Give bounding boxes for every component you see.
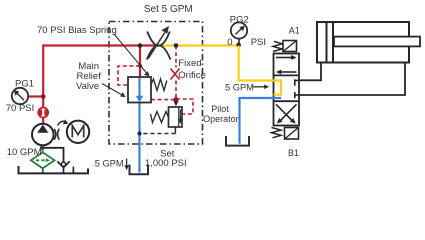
svg-text:Pilot: Pilot bbox=[211, 104, 229, 114]
svg-text:PSI: PSI bbox=[251, 37, 266, 48]
top actuator: spring and solenoid A1 bbox=[273, 41, 282, 51]
directional valve envelope (3 position) bbox=[274, 54, 300, 126]
svg-text:70 PSI Bias Spring: 70 PSI Bias Spring bbox=[37, 25, 117, 36]
wire: yellow regulated flow line to PG2 tee bbox=[158, 44, 239, 46]
piston bbox=[326, 22, 328, 63]
drain: stub and black dashed line to tank line bbox=[174, 127, 176, 134]
gauge PG1 bbox=[12, 88, 28, 104]
rotation arrow bbox=[58, 121, 67, 125]
svg-text:Set 5 GPM: Set 5 GPM bbox=[144, 4, 193, 15]
rod bbox=[334, 37, 420, 47]
position 3 crossed arrows bbox=[276, 104, 293, 121]
wire: yellow drop to directional valve bbox=[239, 46, 281, 95]
svg-text:Operator: Operator bbox=[203, 114, 239, 124]
fixed orifice X symbol bbox=[171, 69, 180, 80]
cylinder body bbox=[317, 22, 409, 63]
70 PSI bias spring of compensator bbox=[151, 79, 167, 91]
position 1 arrows bbox=[276, 57, 292, 59]
svg-text:5 GPM: 5 GPM bbox=[95, 159, 124, 169]
variable orifice (set 5 GPM needle valve) bbox=[147, 32, 170, 46]
svg-text:10 GPM: 10 GPM bbox=[7, 147, 42, 158]
center position blocked ports bbox=[295, 79, 299, 85]
wire: blue flow arrow inside compensator bbox=[138, 78, 140, 97]
svg-text:5 GPM: 5 GPM bbox=[225, 82, 254, 92]
svg-text:Fixed: Fixed bbox=[178, 58, 201, 69]
node: load-sense tee on riser bbox=[138, 64, 142, 68]
bottom actuator: spring and solenoid B1 bbox=[272, 128, 282, 138]
filter diamond bbox=[31, 152, 55, 168]
tank: pilot-operator return reservoir bbox=[226, 136, 249, 146]
wire: red left rail vertical pump to main line bbox=[42, 45, 44, 124]
electric motor M bbox=[67, 121, 89, 143]
flow indicator on pump outlet bbox=[38, 108, 48, 118]
svg-text:Valve: Valve bbox=[76, 81, 99, 92]
pilot relief spring bbox=[151, 112, 169, 123]
wire: red pump pressure line horizontal bbox=[43, 44, 158, 46]
pilot line: red dashed to pilot relief right side bbox=[176, 99, 193, 114]
wire: blue tank return from directional valve bbox=[240, 98, 282, 144]
suction line green to filter bbox=[42, 146, 44, 153]
pilot relief valve body (set 1,000 PSI) bbox=[169, 107, 183, 127]
svg-text:A1: A1 bbox=[289, 26, 300, 36]
check valve ball and seat bbox=[61, 162, 65, 166]
node: PG2 tee bbox=[236, 43, 241, 48]
svg-text:70 PSI: 70 PSI bbox=[6, 103, 35, 114]
node: main line to compensator bbox=[138, 43, 143, 48]
svg-text:PG1: PG1 bbox=[15, 78, 34, 89]
node: pilot relief tee bbox=[174, 97, 178, 101]
enclosure dash-dot boundary of flow-control/relief assembly bbox=[109, 22, 203, 145]
svg-text:B1: B1 bbox=[288, 148, 299, 158]
svg-text:Orifice: Orifice bbox=[178, 70, 205, 81]
node: main line to pilot branch bbox=[174, 43, 179, 48]
shaft coupling bbox=[54, 129, 56, 140]
node: drain to tank line bbox=[137, 131, 141, 135]
pilot line: red dashed down from main line through fixed orifice bbox=[175, 46, 177, 68]
node: pump suction branch bbox=[40, 146, 44, 150]
inlet arrow into pilot relief bbox=[175, 99, 177, 101]
wire: valve A port to cylinder cap end bbox=[299, 63, 321, 81]
tank: bypass flow reservoir bbox=[130, 165, 149, 175]
wire: valve B port to cylinder rod end bbox=[299, 63, 405, 96]
bypass check valve branch bbox=[42, 148, 63, 163]
svg-text:1,000 PSI: 1,000 PSI bbox=[145, 158, 187, 169]
pilot line: red dashed compensator spring chamber link bbox=[151, 99, 176, 101]
wire: blue bypass flow through compensator to tank bbox=[138, 77, 140, 173]
pump bbox=[32, 124, 54, 146]
svg-text:0: 0 bbox=[227, 37, 232, 48]
pilot line: red dashed load-sense to compensator left bbox=[118, 66, 140, 85]
reservoir bbox=[19, 166, 89, 173]
wire: red riser to compensator valve bbox=[139, 46, 141, 78]
arrow inside pilot relief bbox=[179, 110, 181, 120]
node: PG1 tee bbox=[41, 94, 46, 99]
compensator (main relief) valve body bbox=[128, 77, 151, 103]
wire: red gauge PG1 stub bbox=[28, 95, 43, 97]
